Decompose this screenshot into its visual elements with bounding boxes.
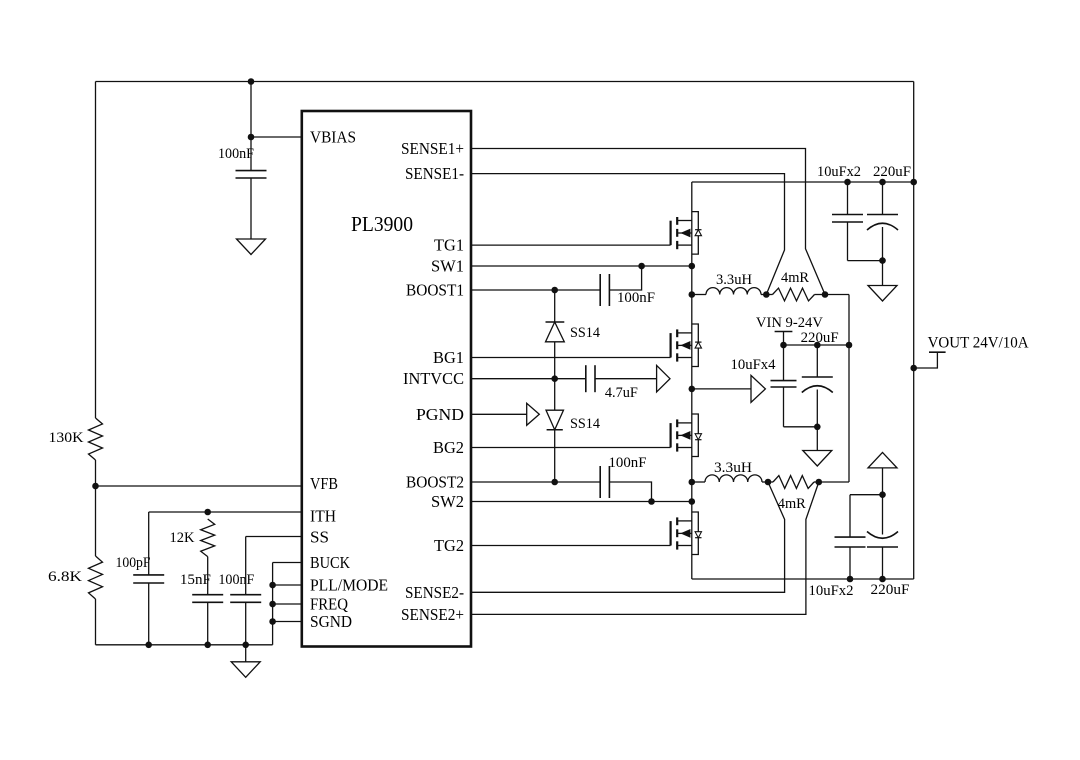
- wire BG2 gate: [471, 447, 671, 449]
- node VOUT tap on right frame: [910, 365, 917, 372]
- svg-text:PLL/MODE: PLL/MODE: [310, 576, 388, 595]
- wire R2 bottom to ground rail: [95, 599, 97, 645]
- port arrow PGND at input caps: [751, 375, 765, 402]
- terminal VOUT label: [928, 335, 1029, 352]
- node ground rail junction C2: [145, 642, 152, 649]
- node L1 tap on bus: [689, 291, 696, 298]
- svg-text:PL3900: PL3900: [351, 212, 413, 236]
- node bracket FREQ: [269, 601, 276, 608]
- node ground rail junction C4: [242, 642, 249, 649]
- wire PGND bus to input caps: [692, 388, 751, 390]
- wire SENSE1- with kelvin drop: [471, 174, 785, 295]
- terminal VOUT: [914, 352, 946, 368]
- node VFB junction: [92, 483, 99, 490]
- wire SGND from IC: [273, 621, 302, 623]
- resistor R5 4mR: [768, 476, 819, 489]
- wire right frame (VOUT rail): [913, 82, 915, 580]
- svg-text:10uFx2: 10uFx2: [817, 164, 861, 180]
- wire VFB to IC: [96, 485, 302, 487]
- inductor L1 3.3uH: [692, 288, 767, 295]
- svg-text:SW1: SW1: [431, 257, 464, 276]
- svg-text:BG1: BG1: [433, 348, 464, 367]
- resistor R1 130K label: [49, 430, 84, 446]
- capacitor C10 10uFx4 label: [731, 357, 776, 373]
- svg-text:BG2: BG2: [433, 438, 464, 457]
- node C9 top junction: [879, 179, 886, 186]
- svg-text:15nF: 15nF: [180, 572, 211, 588]
- node VIN rail right: [846, 342, 853, 349]
- svg-text:100nF: 100nF: [617, 290, 655, 306]
- capacitor C7 100nF (boost2) label: [609, 455, 647, 471]
- resistor R4 4mR: [766, 288, 825, 301]
- svg-text:SENSE1+: SENSE1+: [401, 139, 464, 158]
- svg-text:4mR: 4mR: [781, 270, 809, 286]
- svg-text:220uF: 220uF: [871, 582, 910, 598]
- wire D1 anode to INTVCC: [554, 342, 556, 379]
- capacitor C5 100nF (boost1) label: [617, 290, 655, 306]
- wire bottom caps top tie: [850, 494, 883, 496]
- wire R4 to VIN drop: [825, 294, 849, 296]
- ground for signal ground rail: [231, 662, 260, 678]
- svg-text:4mR: 4mR: [778, 496, 806, 512]
- wire BG1 gate: [471, 357, 671, 359]
- capacitor C11 220uF (input) label: [801, 330, 839, 346]
- svg-text:SENSE2-: SENSE2-: [405, 583, 464, 602]
- node INTVCC junction: [551, 375, 558, 382]
- capacitor C4 100nF (SS) label: [218, 572, 254, 588]
- wire stub to ground symbol: [245, 645, 247, 662]
- node top caps ground junction: [879, 257, 886, 264]
- node VBIAS junction: [248, 134, 255, 141]
- node C8 top junction: [844, 179, 851, 186]
- terminal VIN label: [756, 315, 823, 331]
- node BOOST1 / bootstrap diode junction: [551, 287, 558, 294]
- wire bottom ground rail: [96, 644, 273, 646]
- capacitor C1 100nF (VBIAS decoupling) value label: [218, 146, 254, 162]
- svg-text:6.8K: 6.8K: [48, 569, 82, 585]
- wire SW2: [471, 501, 692, 503]
- resistor R1 130K: [89, 418, 103, 460]
- node C13 bottom junction: [879, 576, 886, 583]
- svg-text:VFB: VFB: [310, 474, 338, 493]
- wire BOOST2 to cap: [471, 481, 600, 483]
- svg-text:SW2: SW2: [431, 492, 464, 511]
- wire R5 to VIN drop: [819, 481, 849, 483]
- svg-text:3.3uH: 3.3uH: [716, 272, 752, 288]
- diode D1 SS14 label: [570, 325, 600, 341]
- node top rail to right frame: [910, 179, 917, 186]
- wire C7 to SW2: [609, 482, 651, 502]
- capacitor C9 220uF: [867, 182, 898, 286]
- resistor R4 4mR label: [781, 270, 809, 286]
- svg-text:10uFx4: 10uFx4: [731, 357, 776, 373]
- svg-text:100nF: 100nF: [218, 572, 254, 588]
- node VIN rail mid: [814, 342, 821, 349]
- capacitor C12 10uFx2: [835, 495, 866, 579]
- svg-text:BOOST2: BOOST2: [406, 473, 464, 492]
- port arrow INTVCC: [657, 365, 670, 392]
- node top frame / VBIAS tap junction: [248, 78, 255, 85]
- transistor Q1 (TG1 switch): [671, 212, 702, 255]
- capacitor C4 100nF: [230, 537, 261, 645]
- wire VIN rail: [784, 344, 850, 346]
- ground for C1: [237, 239, 266, 255]
- node SW2 boost-cap tap: [648, 498, 655, 505]
- resistor R3 12K label: [170, 530, 195, 546]
- capacitor C3 15nF: [192, 557, 223, 645]
- transistor Q2 (BG1 switch): [671, 324, 702, 367]
- wire PLL/MODE from IC: [273, 584, 302, 586]
- wire SENSE1+ with kelvin drop: [471, 149, 825, 295]
- svg-text:VOUT 24V/10A: VOUT 24V/10A: [928, 335, 1029, 352]
- inductor L2 3.3uH label: [714, 460, 752, 476]
- svg-text:INTVCC: INTVCC: [403, 369, 464, 388]
- capacitor C2 100pF label: [116, 555, 151, 571]
- svg-text:BUCK: BUCK: [310, 553, 350, 572]
- wire BOOST1 to D1 cathode: [554, 290, 556, 322]
- ground for top output caps: [868, 286, 897, 302]
- wire VBIAS drop from top rail: [250, 82, 252, 138]
- wire stub to input ground: [816, 427, 818, 451]
- diode D1 SS14 (bootstrap 1): [546, 322, 565, 342]
- node R5 left (SENSE2-): [765, 479, 772, 486]
- wire top caps bottom tie: [848, 260, 883, 262]
- wire SENSE2+ with kelvin rise: [471, 482, 819, 614]
- wire top VOUT rail: [692, 181, 914, 183]
- resistor R2 6.8K label: [48, 569, 82, 585]
- capacitor C13 220uF: [867, 468, 898, 579]
- wire bracket vertical: [272, 563, 274, 645]
- capacitor C12 10uFx2 (out bottom) label: [809, 583, 854, 599]
- node PGND bus junction: [689, 386, 696, 393]
- svg-text:SENSE1-: SENSE1-: [405, 164, 464, 183]
- inductor L1 3.3uH label: [716, 272, 752, 288]
- svg-text:PGND: PGND: [416, 405, 464, 424]
- capacitor C11 220uF: [802, 345, 833, 427]
- svg-text:3.3uH: 3.3uH: [714, 460, 752, 476]
- wire power FET bus: [691, 182, 693, 579]
- diode D2 SS14 label: [570, 416, 600, 432]
- node L2 tap on bus: [689, 479, 696, 486]
- ground for input caps: [803, 451, 832, 467]
- wire SS from IC: [246, 536, 302, 538]
- svg-text:VIN 9-24V: VIN 9-24V: [756, 315, 823, 331]
- wire R1 to VFB node: [95, 460, 97, 556]
- node bracket PLL/MODE: [269, 582, 276, 589]
- wire TG1 gate: [471, 244, 671, 246]
- wire TG2 gate: [471, 545, 671, 547]
- capacitor C3 15nF label: [180, 572, 211, 588]
- capacitor C2 100pF: [133, 512, 164, 645]
- wire left frame upper segment: [95, 82, 97, 419]
- capacitor C9 220uF (out top) label: [873, 164, 911, 180]
- svg-text:130K: 130K: [49, 430, 84, 446]
- wire VIN vertical drop: [848, 295, 850, 483]
- wire FREQ from IC: [273, 603, 302, 605]
- capacitor C1 100nF plates: [236, 137, 267, 239]
- svg-text:SS14: SS14: [570, 416, 600, 432]
- resistor R2 6.8K: [89, 556, 103, 599]
- capacitor C13 220uF (out bottom) label: [871, 582, 910, 598]
- node SW1 boost-cap tap: [638, 263, 645, 270]
- svg-text:TG2: TG2: [434, 536, 464, 555]
- wire SENSE2- with kelvin rise: [471, 482, 785, 592]
- node R4 left (SENSE1-): [763, 291, 770, 298]
- capacitor C8 10uFx2 (out top) label: [817, 164, 861, 180]
- terminal VIN: [775, 332, 793, 346]
- capacitor C10 10uFx4: [771, 345, 797, 427]
- wire SW1: [471, 265, 692, 267]
- wire INTVCC to D2 anode: [554, 379, 556, 411]
- svg-text:SS: SS: [310, 528, 329, 547]
- svg-text:SENSE2+: SENSE2+: [401, 605, 464, 624]
- node R4 right (SENSE1+ / VIN): [822, 291, 829, 298]
- node SW2 bus junction: [689, 498, 696, 505]
- port arrow PGND: [527, 403, 540, 425]
- wire BOOST1 to cap: [471, 289, 600, 291]
- capacitor C5 100nF plates: [600, 274, 609, 306]
- ground (up) for bottom output caps: [868, 452, 897, 468]
- resistor R3 12K: [201, 519, 215, 557]
- svg-text:BOOST1: BOOST1: [406, 281, 464, 300]
- wire PGND from IC: [471, 413, 527, 415]
- svg-text:ITH: ITH: [310, 507, 336, 526]
- node C12 bottom junction: [847, 576, 854, 583]
- capacitor C8 10uFx2: [832, 182, 863, 261]
- inductor L2 3.3uH: [692, 475, 768, 482]
- svg-text:220uF: 220uF: [801, 330, 839, 346]
- wire ITH from IC: [149, 511, 302, 513]
- svg-text:12K: 12K: [170, 530, 195, 546]
- wire C6 to port arrow: [595, 378, 657, 380]
- svg-text:TG1: TG1: [434, 236, 464, 255]
- svg-text:100nF: 100nF: [609, 455, 647, 471]
- IC U1 PL3900: [302, 111, 471, 647]
- node SW1 bus junction: [689, 263, 696, 270]
- svg-text:VBIAS: VBIAS: [310, 128, 356, 147]
- wire VBIAS to IC pin: [251, 136, 302, 138]
- node bottom caps ground junction: [879, 491, 886, 498]
- svg-text:100nF: 100nF: [218, 146, 254, 162]
- wire input caps bottom tie: [784, 426, 818, 428]
- svg-text:220uF: 220uF: [873, 164, 911, 180]
- capacitor C7 100nF plates: [600, 466, 609, 498]
- node ground rail junction C3: [204, 642, 211, 649]
- node bracket SGND: [269, 618, 276, 625]
- node ITH / 12K junction: [204, 509, 211, 516]
- node input caps ground junction: [814, 424, 821, 431]
- svg-text:SS14: SS14: [570, 325, 600, 341]
- capacitor C6 4.7uF plates: [586, 365, 595, 392]
- svg-text:SGND: SGND: [310, 612, 352, 631]
- node VIN rail left: [780, 342, 787, 349]
- wire INTVCC from IC: [471, 378, 586, 380]
- svg-text:100pF: 100pF: [116, 555, 151, 571]
- svg-text:10uFx2: 10uFx2: [809, 583, 854, 599]
- transistor Q3 (BG2 switch): [671, 414, 702, 457]
- node BOOST2 / bootstrap diode junction: [551, 479, 558, 486]
- svg-text:FREQ: FREQ: [310, 595, 348, 614]
- wire bottom VOUT rail: [692, 578, 914, 580]
- wire BUCK from IC: [273, 562, 302, 564]
- svg-text:4.7uF: 4.7uF: [605, 385, 638, 401]
- capacitor C6 4.7uF label: [605, 385, 638, 401]
- transistor Q4 (TG2 switch): [671, 512, 702, 555]
- wire D2 cathode to BOOST2: [554, 430, 556, 482]
- node R5 right (SENSE2+ / VIN): [816, 479, 823, 486]
- wire C5 to SW1: [609, 266, 641, 290]
- wire top rail (VOUT feedback, top frame): [96, 81, 914, 83]
- resistor R5 4mR label: [778, 496, 806, 512]
- diode D2 SS14 (bootstrap 2): [546, 410, 564, 430]
